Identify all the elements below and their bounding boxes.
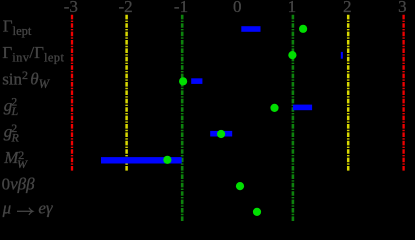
svg-text:0νββ: 0νββ	[2, 174, 36, 193]
bar sin^2 theta_W	[191, 78, 202, 84]
dot M_W^2	[163, 156, 171, 164]
dot Gamma_inv/Gamma_lept	[288, 51, 296, 59]
gridline -2 (yellow dash-dot)	[125, 15, 128, 172]
svg-text:0: 0	[233, 0, 242, 16]
bar M_W^2	[101, 157, 182, 163]
svg-text:μ: μ	[2, 198, 12, 217]
dot mu -> e gamma	[253, 208, 261, 216]
svg-text:-1: -1	[174, 0, 188, 16]
gridline -3 (red dash-dot)	[71, 15, 73, 172]
svg-text:3: 3	[398, 0, 407, 16]
svg-text:W: W	[17, 157, 28, 171]
svg-text:eγ: eγ	[38, 198, 54, 217]
svg-text:L: L	[11, 104, 19, 118]
bar Gamma_inv/Gamma_lept (narrow tick)	[341, 52, 343, 59]
gridline -1 (green dash-dot)	[181, 15, 184, 222]
bar g_L^2	[293, 105, 312, 111]
bar Gamma_lept	[241, 26, 260, 32]
svg-text:-3: -3	[64, 0, 78, 16]
dot g_L^2	[270, 104, 278, 112]
gridline +1 (green dash-dot)	[292, 15, 295, 222]
dot 0 nu beta beta	[236, 182, 244, 190]
svg-text:R: R	[11, 130, 20, 144]
dot sin^2 theta_W	[179, 77, 187, 85]
gridline +3 (red dash-dot)	[402, 15, 404, 172]
svg-text:2: 2	[343, 0, 352, 16]
dot Gamma_lept	[299, 25, 307, 33]
bar g_R^2	[210, 131, 232, 137]
gridline +2 (yellow dash-dot)	[347, 15, 350, 172]
dot g_R^2	[217, 130, 225, 138]
svg-text:-2: -2	[119, 0, 133, 16]
svg-text:1: 1	[288, 0, 297, 16]
